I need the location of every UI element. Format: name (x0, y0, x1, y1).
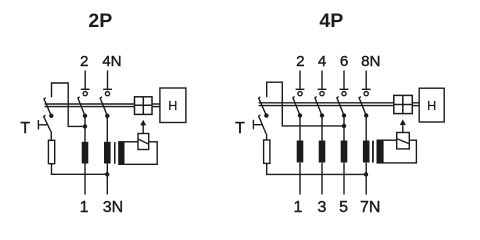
main contact blade pole N (2P) (100, 97, 107, 116)
junction dot pole N pivot (4P) (364, 113, 368, 117)
wire pole 2 (4P) (321, 116, 323, 195)
main contact blade pole 3 (4P) (337, 97, 344, 116)
auxiliary contact blade (2P) (44, 98, 51, 116)
terminal clamp 2 (2P) (81, 71, 90, 96)
svg-text:4P: 4P (319, 10, 343, 32)
terminal clamp 4N (2P) (103, 71, 112, 96)
test resistor (2P) (48, 140, 54, 163)
main contact blade pole 1 (2P) (78, 97, 85, 116)
arrow trip to mechanism (4P) (400, 119, 406, 132)
wire pole 1 lower (2P) (84, 164, 86, 195)
svg-text:8N: 8N (361, 53, 380, 70)
svg-text:1: 1 (80, 199, 89, 216)
wire pole 1 (4P) (299, 116, 301, 195)
terminal clamp 6 (4P) (340, 71, 349, 96)
auxiliary test contact wire loop (4P) (267, 82, 344, 126)
svg-text:H: H (427, 99, 436, 113)
junction dot aux/test (4P) (264, 113, 268, 117)
trip relay (2P) (138, 134, 149, 150)
svg-text:2: 2 (296, 53, 304, 70)
relay coil box black wall (4P) (377, 140, 383, 163)
test button T contact (4P) (253, 115, 266, 140)
svg-text:3: 3 (317, 199, 326, 216)
toroid primary bar pole N (2P) (104, 142, 111, 164)
junction dot pole 1 pivot (2P) (83, 114, 87, 118)
test resistor (4P) (264, 140, 270, 163)
toroid primary bar pole 1 (4P) (297, 141, 304, 163)
svg-text:5: 5 (339, 199, 348, 216)
junction dot test wire on pole N (4P) (364, 172, 368, 176)
junction dot pole 2 pivot (4P) (320, 113, 324, 117)
svg-text:6: 6 (340, 53, 348, 70)
svg-text:1: 1 (293, 199, 302, 216)
main contact blade pole 2 (4P) (315, 97, 322, 116)
junction dot test wire on pole N (2P) (105, 172, 109, 176)
mechanical linkage (2P) (45, 104, 160, 107)
relay coil box (4P) (377, 140, 416, 163)
svg-text:H: H (168, 99, 177, 113)
svg-text:4: 4 (318, 53, 326, 70)
wire pole N lower (2P) (106, 164, 108, 195)
svg-text:3N: 3N (103, 199, 123, 216)
test button T contact (2P) (38, 115, 51, 140)
toroid secondary thin bar (2P) (114, 142, 116, 164)
trip relay (4P) (397, 133, 410, 149)
mechanism box (4P) (394, 95, 413, 113)
svg-text:7N: 7N (360, 199, 380, 216)
mechanism box (2P) (135, 97, 153, 115)
toroid secondary thin bar (4P) (372, 141, 374, 163)
toroid primary bar pole N (4P) (363, 141, 370, 163)
svg-text:2P: 2P (88, 10, 112, 32)
svg-text:4N: 4N (102, 53, 121, 70)
toroid primary bar pole 3 (4P) (341, 141, 348, 163)
wire pole 1 upper (2P) (84, 116, 86, 142)
terminal clamp 8N (4P) (362, 71, 371, 96)
wire pole N upper (2P) (106, 116, 108, 142)
handle indicator box H (2P) (160, 88, 186, 123)
junction dot test tap on pole 1 (2P) (83, 124, 87, 128)
svg-text:2: 2 (80, 53, 88, 70)
wire resistor to test wire (4P) (267, 163, 366, 174)
wire pole N (4P) (365, 116, 367, 195)
toroid primary bar pole 1 (2P) (82, 142, 89, 164)
toroid primary bar pole 2 (4P) (319, 141, 326, 163)
wire pole 3 (4P) (343, 116, 345, 195)
auxiliary contact blade (4P) (259, 97, 267, 116)
terminal clamp 2 (4P) (296, 71, 305, 96)
junction dot pole 1 pivot (4P) (298, 113, 302, 117)
main contact blade pole N (4P) (359, 97, 366, 116)
relay coil box black wall (2P) (119, 142, 125, 165)
junction dot aux/test (2P) (49, 114, 53, 118)
junction dot pole 3 pivot (4P) (342, 113, 346, 117)
svg-text:T: T (235, 120, 245, 137)
main contact blade pole 1 (4P) (293, 97, 300, 116)
handle indicator box H (4P) (419, 88, 444, 122)
auxiliary test contact wire loop (2P) (52, 83, 86, 126)
mechanical linkage (4P) (259, 103, 420, 106)
arrow trip to mechanism (2P) (140, 120, 146, 133)
wire resistor to test wire (2P) (52, 164, 108, 175)
terminal clamp 4 (4P) (318, 71, 327, 96)
svg-text:T: T (20, 120, 30, 137)
junction dot test tap on pole 3 (4P) (342, 124, 346, 128)
relay coil box (2P) (119, 142, 157, 165)
junction dot pole N pivot (2P) (105, 114, 109, 118)
